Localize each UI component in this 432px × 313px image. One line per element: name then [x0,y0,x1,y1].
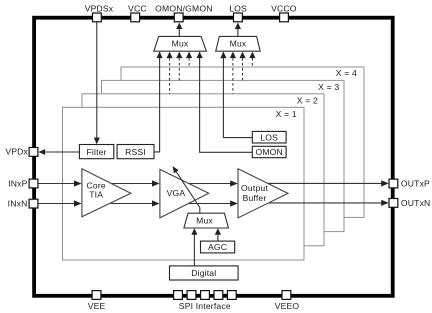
label X = 2 [297,96,318,106]
wire Output Buffer to OUTxP pin [268,180,389,186]
label X = 4 [336,68,357,78]
dashed wire channel 4 to Mux U1 input 4 [186,52,192,67]
pin INxP [8,178,38,188]
svg-text:X = 4: X = 4 [336,68,357,78]
svg-text:AGC: AGC [208,242,227,252]
mux U1 (OMON/GMON select) [154,36,207,51]
box OMON [252,146,286,157]
pin SPI 4 [214,291,223,300]
svg-text:LOS: LOS [229,3,247,13]
gain control arrow through VGA [173,166,200,213]
dashed wire channel 2 to Mux U2 input 2 [230,52,236,94]
svg-text:OUTxP: OUTxP [401,178,430,188]
svg-text:VEEO: VEEO [275,301,300,311]
box Digital [170,266,239,280]
svg-text:INxN: INxN [8,199,28,209]
pin VEE [88,291,106,311]
svg-text:RSSI: RSSI [125,147,146,157]
svg-text:VEE: VEE [88,301,106,311]
channel slice X=1 [63,107,305,260]
label X = 3 [318,82,339,92]
svg-text:VCCO: VCCO [271,3,297,13]
svg-text:Output: Output [241,183,268,193]
dashed wire channel 2 to Mux U1 input 2 [167,52,173,94]
wire Mux U2 output to LOS pin [235,23,241,37]
dashed wire channel 3 to Mux U1 input 3 [176,52,182,81]
svg-text:OMON/GMON: OMON/GMON [155,3,212,13]
svg-text:Mux: Mux [230,39,247,49]
wire INxP pin to Core TIA [38,180,81,186]
box RSSI [117,145,154,159]
svg-text:SPI Interface: SPI Interface [179,301,231,311]
mux U2 (LOS select) [216,36,261,51]
pin OUTxP [389,178,430,188]
label X = 1 [276,109,297,119]
channel slice X=4 [121,67,364,217]
box LOS [252,131,286,143]
wire VGA to Output Buffer top [188,180,238,186]
pin VPDSx [85,3,114,22]
wire Digital to Mux U3 [191,228,197,266]
pin SPI 5 [227,291,236,300]
amplifier Core TIA [82,169,131,217]
svg-text:Digital: Digital [191,268,216,278]
svg-text:INxP: INxP [8,178,27,188]
svg-text:X = 2: X = 2 [297,96,318,106]
channel slice X=3 [102,80,345,231]
pin VEEO [275,291,300,311]
mux U3 (gain select) [184,213,229,228]
pin VCCO [271,3,297,22]
wire RSSI to Mux U1 input 1 [154,52,163,152]
wire Core TIA to VGA top [111,180,160,186]
pin SPI 2 [187,291,196,300]
svg-text:Buffer: Buffer [243,193,267,203]
wire OMON to Mux U1 input 5 [197,52,253,153]
svg-text:VPDx: VPDx [5,147,28,157]
svg-text:VCC: VCC [128,3,147,13]
amplifier Output Buffer [238,169,288,218]
svg-text:VPDSx: VPDSx [85,3,114,13]
svg-text:OMON: OMON [255,147,282,157]
svg-text:Filter: Filter [87,147,107,157]
dashed wire channel 4 to Mux U2 input 4 [249,52,255,67]
pin VCC [128,3,147,22]
label SPI Interface [179,301,231,311]
pin OUTxN [389,198,430,208]
box Filter [79,145,113,159]
box AGC [201,241,235,253]
channel slice X=2 [82,94,324,246]
wire Filter to VPDx pin [39,149,80,155]
wire VPDSx pin to Filter [94,22,100,144]
svg-text:LOS: LOS [260,132,278,142]
pin SPI 1 [174,291,183,300]
wire VGA to Output Buffer bottom [188,200,238,206]
pin LOS [229,3,247,22]
amplifier VGA [160,169,209,218]
dashed wire channel 3 to Mux U2 input 3 [239,52,245,81]
chip boundary [34,18,393,296]
svg-text:Mux: Mux [172,39,189,49]
pin VPDx [5,147,38,157]
wire Core TIA to VGA bottom [111,200,160,206]
svg-text:OUTxN: OUTxN [401,198,431,208]
wire INxN pin to Core TIA [38,200,81,206]
wire AGC to Mux U3 [215,228,221,241]
wire Mux U1 output to OMON/GMON pin [176,23,182,37]
svg-text:Mux: Mux [196,215,213,225]
pin SPI 3 [201,291,210,300]
pin OMON/GMON [155,3,212,22]
wire LOS box to Mux U2 input 1 [220,52,252,138]
svg-text:VGA: VGA [167,188,186,198]
svg-text:X = 3: X = 3 [318,82,339,92]
svg-text:TIA: TIA [89,189,103,199]
pin INxN [8,199,38,209]
wire Output Buffer to OUTxN pin [269,200,389,206]
svg-text:X = 1: X = 1 [276,109,297,119]
